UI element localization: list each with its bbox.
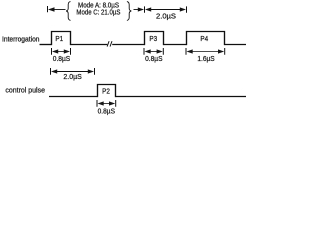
label Mode C bbox=[76, 10, 120, 17]
dimension P3 width bbox=[144, 48, 163, 55]
svg-text:P2: P2 bbox=[102, 87, 110, 96]
dimension P1 width bbox=[52, 48, 71, 55]
brace left bbox=[66, 2, 70, 21]
wire baseline break to P3 bbox=[112, 44, 144, 46]
wire baseline after P2 bbox=[116, 96, 247, 98]
label Interrogation bbox=[2, 37, 40, 44]
value 0.8uS under P1 bbox=[53, 56, 71, 63]
wire baseline before P2 bbox=[49, 96, 98, 98]
label Mode A bbox=[78, 2, 119, 9]
svg-text:2.0µS: 2.0µS bbox=[63, 74, 82, 81]
svg-text:Mode C: 21.0µS: Mode C: 21.0µS bbox=[76, 10, 120, 17]
dimension P4 width bbox=[186, 48, 225, 55]
svg-text:0.8µS: 0.8µS bbox=[98, 108, 116, 115]
value 2.0uS top bbox=[156, 13, 176, 20]
leader line from brace bbox=[134, 9, 139, 11]
pulse P1 bbox=[52, 32, 71, 46]
svg-text:1.6µS: 1.6µS bbox=[197, 56, 215, 63]
svg-text:P3: P3 bbox=[149, 34, 157, 43]
value 2.0uS mid bbox=[63, 74, 82, 81]
svg-text:0.8µS: 0.8µS bbox=[145, 56, 163, 63]
wire baseline P1 to break bbox=[71, 44, 108, 46]
pulse P2 bbox=[98, 85, 116, 98]
value 0.8uS under P3 bbox=[145, 56, 163, 63]
svg-text:control pulse: control pulse bbox=[5, 88, 45, 95]
svg-text:Mode A: 8.0µS: Mode A: 8.0µS bbox=[78, 2, 119, 9]
arrow pointing left at tick bbox=[48, 7, 55, 11]
wire baseline P3 to P4 bbox=[164, 44, 187, 46]
svg-text:P4: P4 bbox=[200, 34, 208, 43]
arrow into tick P3 edge bbox=[138, 7, 144, 11]
svg-text:2.0µS: 2.0µS bbox=[156, 13, 176, 20]
svg-text:P1: P1 bbox=[55, 34, 63, 43]
label P2 bbox=[102, 87, 110, 96]
label control pulse bbox=[5, 88, 45, 95]
wire baseline after P4 bbox=[225, 44, 247, 46]
tick at P3 leading edge bbox=[144, 6, 146, 12]
pulse P4 bbox=[187, 32, 225, 46]
dimension P2 width bbox=[97, 100, 116, 107]
break symbol bbox=[107, 41, 112, 46]
svg-text:Interrogation: Interrogation bbox=[2, 37, 40, 44]
label P4 bbox=[200, 34, 208, 43]
wire baseline before P1 bbox=[40, 44, 52, 46]
value 1.6uS under P4 bbox=[197, 56, 215, 63]
label P3 bbox=[149, 34, 157, 43]
pulse P3 bbox=[145, 32, 164, 46]
tick at P1 leading edge (top annotation) bbox=[47, 6, 49, 12]
dimension P3 to P4 spacing 2.0uS bbox=[145, 6, 187, 12]
value 0.8uS under P2 bbox=[98, 108, 116, 115]
brace right bbox=[127, 2, 131, 21]
label P1 bbox=[55, 34, 63, 43]
dimension P1 to P2 spacing 2.0uS bbox=[51, 68, 95, 75]
svg-text:0.8µS: 0.8µS bbox=[53, 56, 71, 63]
